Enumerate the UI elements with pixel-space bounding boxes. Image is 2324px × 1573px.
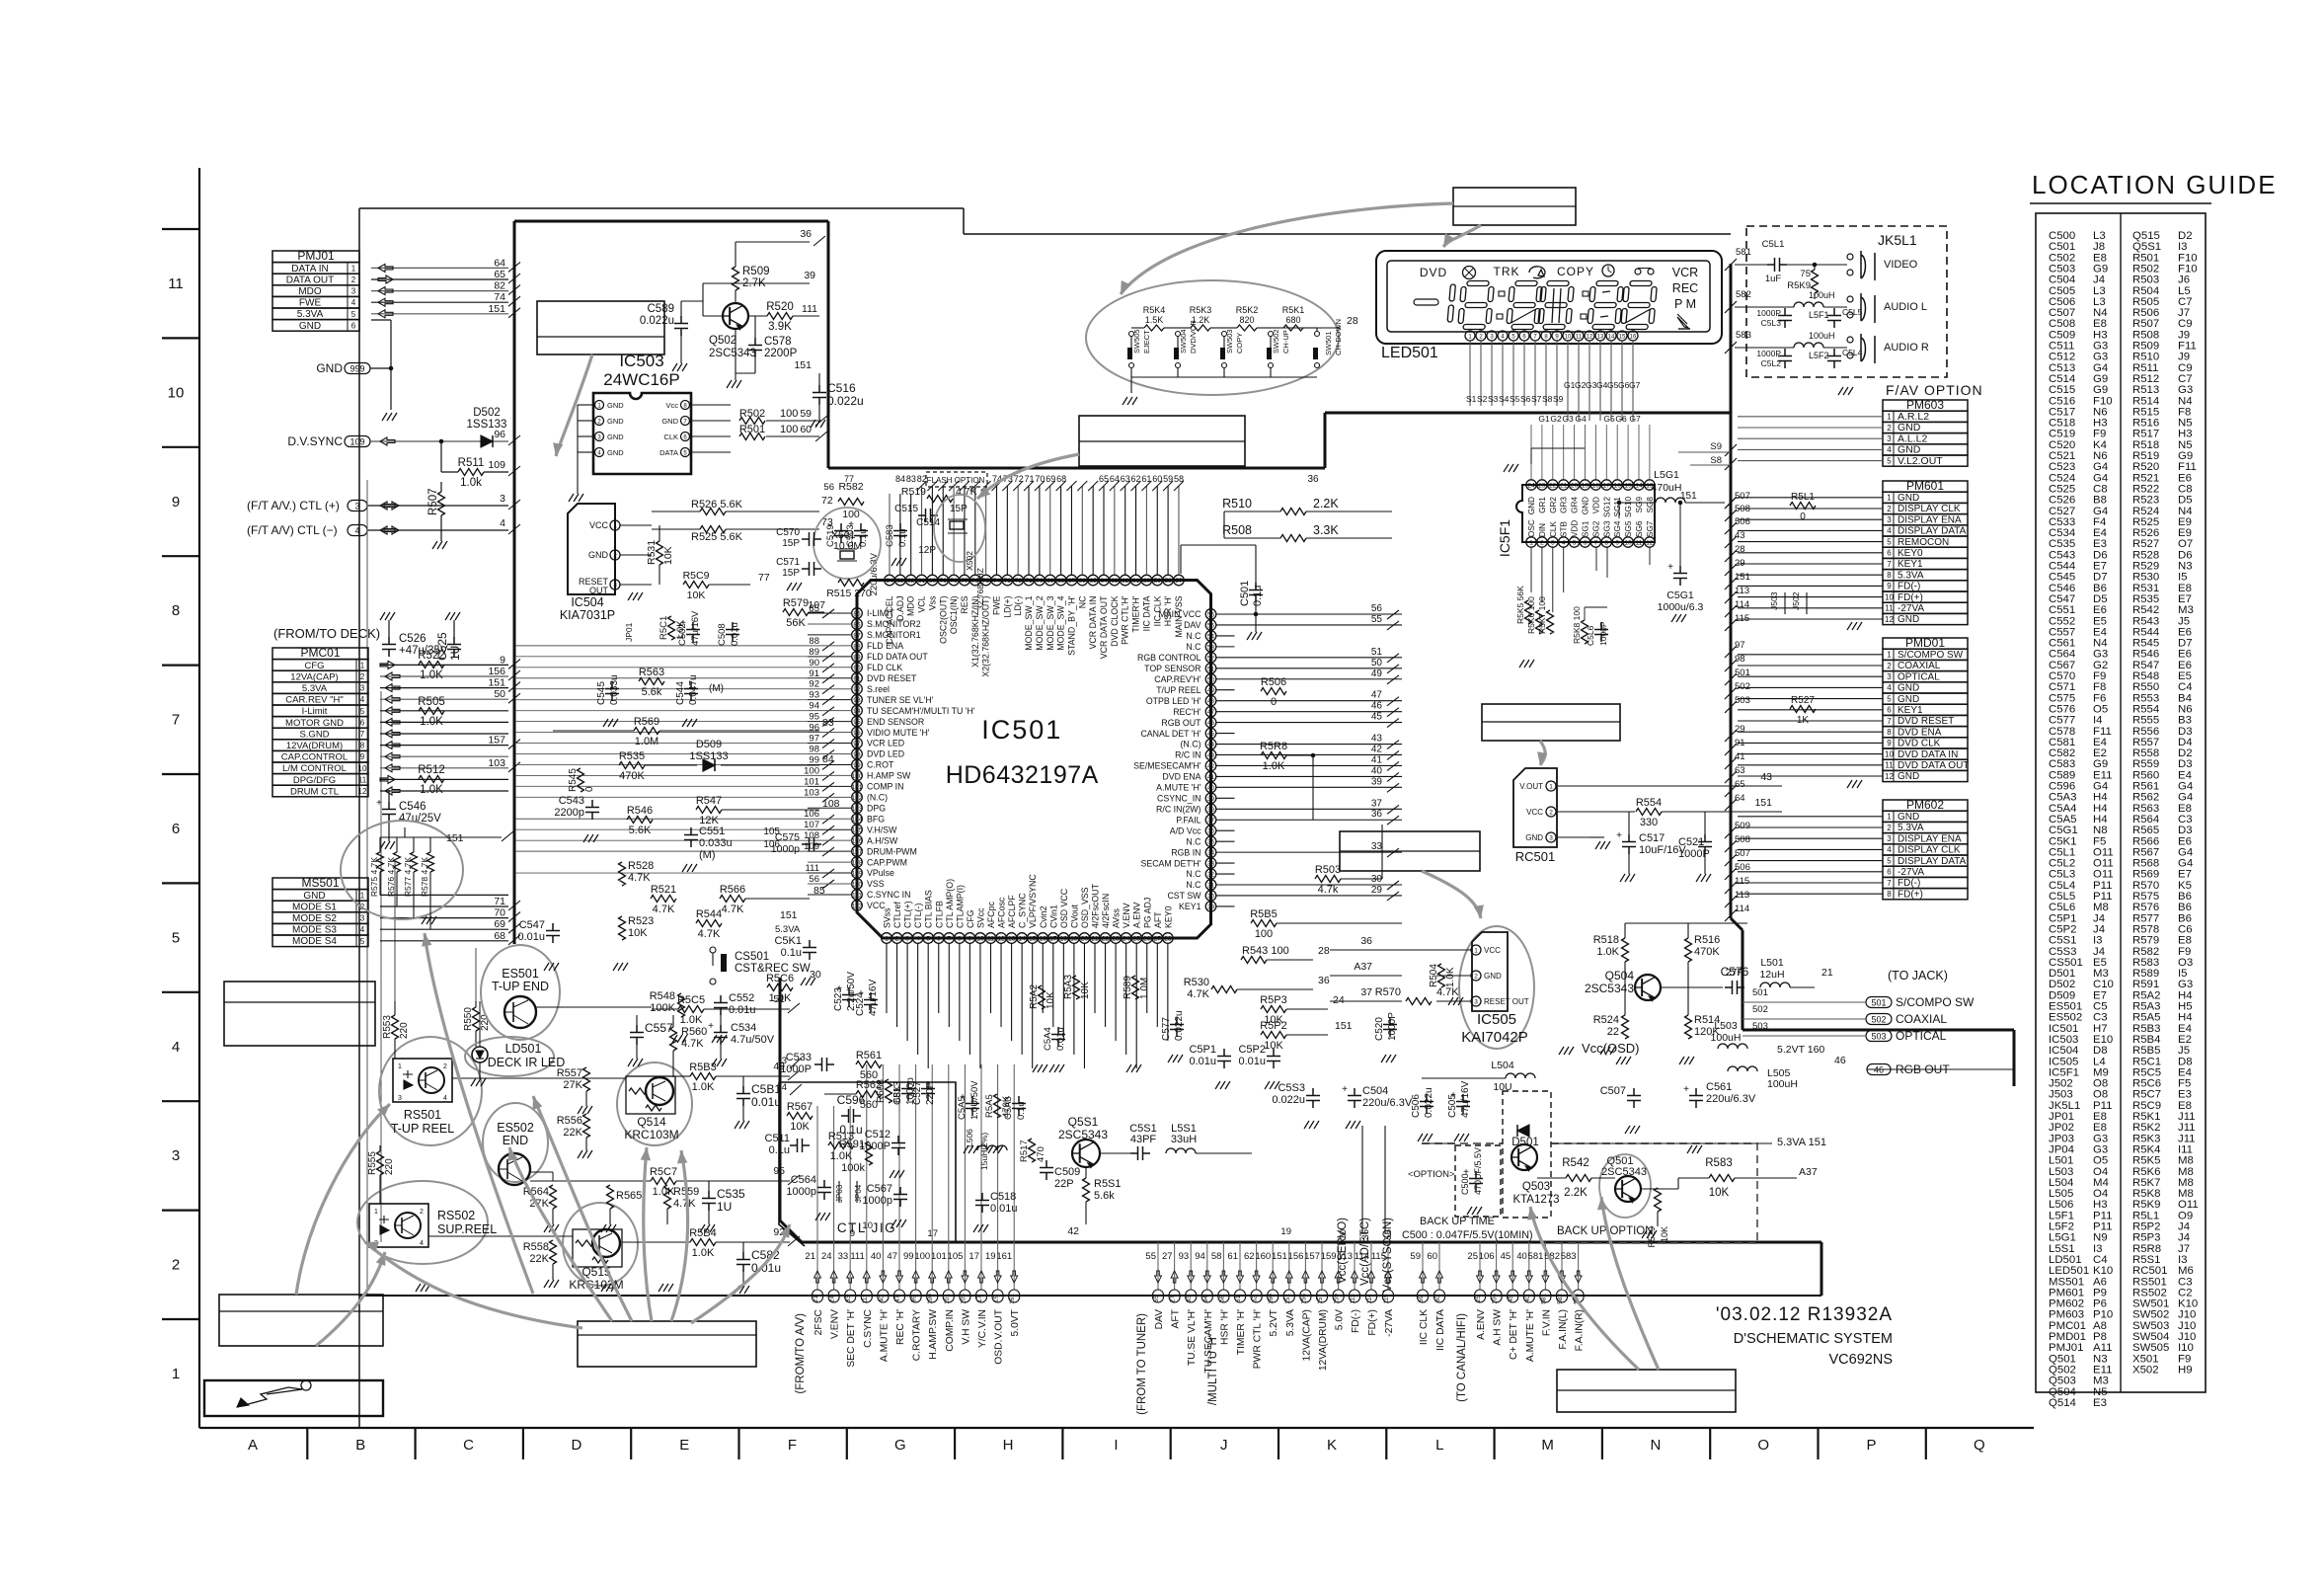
svg-text:94: 94 — [853, 708, 861, 715]
svg-text:1.5K: 1.5K — [1145, 315, 1164, 325]
svg-text:DPG: DPG — [867, 803, 886, 813]
svg-text:C533: C533 — [786, 1052, 812, 1063]
ground — [380, 841, 395, 849]
svg-text:48: 48 — [1207, 698, 1215, 705]
svg-text:10K: 10K — [1709, 1187, 1730, 1199]
svg-text:470K: 470K — [1694, 946, 1720, 958]
IC501 left pins 85-112 — [852, 608, 975, 911]
crystal X501 — [813, 508, 881, 579]
svg-text:R525 5.6K: R525 5.6K — [691, 531, 743, 543]
ground — [578, 1106, 592, 1114]
resistor R514 — [1685, 1015, 1692, 1039]
svg-text:G6: G6 — [1615, 414, 1627, 424]
svg-text:+: + — [708, 1021, 714, 1032]
resistor R562 — [856, 1079, 882, 1111]
svg-text:15: 15 — [1029, 936, 1037, 943]
svg-text:1.0K: 1.0K — [420, 784, 443, 796]
capacitor C502 — [677, 610, 701, 646]
svg-text:R5P2: R5P2 — [1260, 1020, 1287, 1032]
svg-text:11: 11 — [168, 275, 184, 292]
svg-text:ES501: ES501 — [502, 967, 539, 981]
svg-text:FD(-): FD(-) — [1351, 1309, 1361, 1333]
svg-text:6: 6 — [1584, 540, 1588, 547]
svg-text:3.3K: 3.3K — [1313, 523, 1339, 537]
svg-text:4: 4 — [1887, 445, 1892, 454]
svg-text:10: 10 — [1885, 592, 1894, 601]
svg-text:581: 581 — [1736, 247, 1751, 258]
svg-text:19: 19 — [985, 1251, 996, 1262]
svg-text:SG9: SG9 — [1635, 497, 1644, 513]
svg-text:156: 156 — [1300, 1294, 1307, 1304]
svg-text:J502: J502 — [1791, 591, 1801, 610]
svg-text:101: 101 — [852, 784, 863, 791]
svg-text:R576 4.7K: R576 4.7K — [386, 857, 396, 897]
svg-text:15P: 15P — [782, 538, 800, 549]
svg-text:C523: C523 — [833, 987, 844, 1011]
svg-text:REC 'H': REC 'H' — [895, 1309, 906, 1345]
svg-text:R542: R542 — [1562, 1157, 1589, 1169]
svg-text:SW502: SW502 — [1272, 329, 1280, 354]
wire Q502 collector — [735, 329, 736, 380]
node -27VA — [1371, 1242, 1395, 1337]
svg-text:5: 5 — [1887, 694, 1892, 703]
svg-text:C5P1: C5P1 — [1189, 1044, 1216, 1056]
label G row 2 — [1538, 414, 1641, 424]
svg-text:8: 8 — [958, 936, 962, 943]
svg-text:C561: C561 — [1706, 1081, 1732, 1093]
svg-text:22: 22 — [1549, 483, 1557, 490]
svg-text:C5K1: C5K1 — [774, 935, 802, 947]
svg-text:157: 157 — [1304, 1251, 1320, 1262]
svg-text:9: 9 — [850, 1228, 855, 1239]
svg-text:68: 68 — [494, 930, 505, 942]
IC501 right pins 56-29 — [1133, 609, 1216, 912]
svg-text:157: 157 — [1317, 1294, 1324, 1304]
svg-text:151: 151 — [780, 909, 798, 921]
svg-text:SG6: SG6 — [1635, 520, 1644, 537]
capacitor C571 — [802, 562, 821, 576]
node PWR CTL 'H' — [1244, 1242, 1264, 1369]
svg-text:98: 98 — [809, 744, 819, 754]
svg-text:111: 111 — [850, 1251, 864, 1262]
svg-text:G4: G4 — [1575, 414, 1587, 424]
svg-text:4: 4 — [916, 936, 920, 943]
schematic boundary outline (thin) — [359, 208, 1731, 1428]
svg-text:10K: 10K — [662, 546, 674, 565]
svg-text:503: 503 — [1752, 1021, 1768, 1032]
svg-text:73: 73 — [1004, 578, 1012, 585]
svg-text:C552: C552 — [729, 992, 754, 1004]
capacitor C508 — [717, 622, 740, 646]
svg-text:60: 60 — [1427, 1251, 1437, 1262]
capacitor C589 — [674, 316, 688, 336]
capacitor C500 — [1460, 1147, 1483, 1195]
svg-text:SUP.REEL: SUP.REEL — [437, 1222, 497, 1236]
svg-text:36: 36 — [1307, 474, 1319, 485]
svg-text:5: 5 — [360, 937, 365, 946]
svg-text:82: 82 — [494, 280, 505, 292]
svg-text:1.0K: 1.0K — [1263, 760, 1285, 772]
svg-text:23: 23 — [1538, 483, 1546, 490]
svg-text:5.2VT: 5.2VT — [1269, 1308, 1279, 1336]
capacitor C544 — [675, 674, 699, 705]
svg-text:FD(-): FD(-) — [1898, 878, 1920, 889]
transistor Q515 KRC103M — [563, 1203, 638, 1292]
resistor R5A3 — [1063, 975, 1091, 999]
svg-text:CH-DOWN: CH-DOWN — [1334, 319, 1343, 355]
svg-text:DVD CLK: DVD CLK — [1898, 739, 1941, 749]
svg-text:82: 82 — [917, 474, 927, 484]
ground — [988, 1145, 1003, 1153]
resistor R556 — [583, 1114, 590, 1138]
svg-text:55: 55 — [1371, 614, 1383, 625]
svg-text:42: 42 — [1207, 763, 1215, 770]
capacitor C5L1 — [1767, 258, 1787, 272]
svg-text:5: 5 — [172, 929, 180, 946]
svg-text:39: 39 — [1371, 776, 1383, 787]
svg-text:F: F — [788, 1437, 797, 1454]
capacitor C583 — [885, 523, 908, 547]
capacitor C526 — [382, 637, 396, 657]
svg-text:5: 5 — [1887, 856, 1892, 865]
svg-text:PM602: PM602 — [1906, 798, 1944, 812]
svg-text:I: I — [1114, 1437, 1118, 1454]
svg-text:2: 2 — [1887, 505, 1892, 513]
svg-text:13: 13 — [1008, 936, 1016, 943]
svg-text:C596: C596 — [837, 1093, 866, 1107]
svg-text:1uF: 1uF — [1765, 274, 1782, 284]
svg-text:5: 5 — [1887, 456, 1892, 465]
svg-text:22: 22 — [1607, 1026, 1619, 1038]
transistor Q503 — [1511, 1144, 1537, 1171]
svg-text:SG12: SG12 — [1602, 497, 1611, 517]
svg-text:OUT: OUT — [589, 586, 609, 595]
svg-text:R545: R545 — [568, 768, 579, 792]
IC IC5F1 — [1497, 425, 1655, 612]
svg-text:R519: R519 — [901, 486, 926, 498]
svg-text:VDD: VDD — [1571, 520, 1580, 537]
svg-text:R523: R523 — [628, 915, 654, 927]
svg-text:93: 93 — [1186, 1296, 1193, 1303]
svg-text:DRUM CTL: DRUM CTL — [290, 786, 339, 797]
svg-text:(N.C): (N.C) — [867, 793, 888, 803]
svg-text:1SS133: 1SS133 — [467, 419, 507, 431]
svg-text:R/C IN: R/C IN — [1175, 750, 1201, 760]
svg-text:64: 64 — [1110, 474, 1120, 484]
svg-text:C551: C551 — [699, 826, 725, 837]
svg-text:C525: C525 — [435, 632, 449, 661]
svg-text:106: 106 — [852, 838, 863, 845]
capacitor C564 — [817, 1180, 831, 1200]
svg-text:G4: G4 — [1596, 380, 1608, 390]
switch CS501 CST&REC SW — [710, 947, 811, 984]
node REC 'H' — [887, 1242, 906, 1345]
node F.V.IN — [1528, 1242, 1553, 1336]
svg-text:RGB OUT: RGB OUT — [1161, 718, 1201, 728]
ground — [1616, 1057, 1631, 1064]
svg-text:CTL AMP(O): CTL AMP(O) — [945, 879, 955, 928]
resistor R568 — [876, 1079, 903, 1103]
svg-text:104: 104 — [852, 817, 863, 824]
svg-text:Vcc(AD/ETC): Vcc(AD/ETC) — [1359, 1218, 1371, 1286]
svg-text:R589: R589 — [1123, 976, 1133, 999]
ground — [1559, 1047, 1574, 1055]
svg-text:106: 106 — [763, 839, 780, 850]
callout box A5 — [224, 982, 375, 1046]
sensor RS502 SUP.REEL — [357, 1181, 497, 1264]
svg-text:+: + — [376, 798, 382, 809]
resistor R548 — [678, 993, 685, 1017]
resistor R525 — [700, 526, 726, 533]
svg-text:C517: C517 — [1639, 832, 1665, 844]
svg-text:S3: S3 — [1488, 394, 1499, 404]
svg-text:100k: 100k — [841, 1162, 865, 1174]
resistor R519 — [927, 496, 953, 503]
PMJ01 wires — [371, 257, 520, 317]
svg-text:13: 13 — [1597, 335, 1604, 341]
svg-text:999: 999 — [349, 364, 364, 374]
svg-text:28: 28 — [1164, 936, 1172, 943]
svg-text:8: 8 — [1887, 571, 1892, 580]
svg-text:6: 6 — [1887, 549, 1892, 558]
svg-text:3: 3 — [398, 1095, 402, 1102]
svg-text:1.0K: 1.0K — [1596, 946, 1619, 958]
svg-text:37: 37 — [1360, 986, 1372, 998]
svg-text:GND: GND — [1898, 771, 1919, 782]
svg-text:A.ENV: A.ENV — [1132, 902, 1142, 928]
svg-text:9: 9 — [1887, 739, 1892, 747]
svg-text:OSD_VSS: OSD_VSS — [1080, 887, 1090, 928]
svg-text:72: 72 — [1014, 474, 1024, 484]
ground — [1679, 1057, 1694, 1064]
svg-text:4: 4 — [1887, 526, 1892, 535]
node C+ DET 'H' — [1501, 1242, 1520, 1360]
svg-text:C505: C505 — [1447, 1094, 1458, 1118]
svg-text:502: 502 — [1752, 1004, 1768, 1015]
svg-text:R560: R560 — [681, 1026, 707, 1038]
svg-text:10: 10 — [1565, 335, 1572, 341]
svg-text:21: 21 — [805, 1251, 815, 1262]
node A.MUTE 'H' — [871, 1242, 891, 1362]
svg-text:C5L6: C5L6 — [1586, 625, 1595, 646]
capacitor C5P2 — [1267, 1049, 1280, 1068]
svg-text:C5L2: C5L2 — [1761, 358, 1782, 368]
svg-text:30: 30 — [1207, 893, 1215, 900]
svg-text:VCR DATA OUT: VCR DATA OUT — [1099, 595, 1109, 659]
svg-text:17: 17 — [976, 1296, 983, 1303]
svg-text:3: 3 — [1549, 835, 1553, 842]
svg-text:3: 3 — [1887, 834, 1892, 843]
svg-text:151: 151 — [488, 677, 505, 689]
svg-text:A.ENV: A.ENV — [1476, 1309, 1487, 1340]
svg-text:2200p: 2200p — [554, 807, 584, 819]
resistor R528 — [619, 862, 626, 886]
ground — [1671, 614, 1686, 622]
svg-text:SG7: SG7 — [1646, 520, 1655, 537]
svg-text:1.0U/50V: 1.0U/50V — [969, 1080, 980, 1120]
svg-text:GND: GND — [607, 401, 624, 410]
svg-text:STB: STB — [1560, 521, 1569, 537]
svg-text:G1: G1 — [1538, 414, 1550, 424]
svg-text:R505: R505 — [418, 696, 445, 708]
svg-text:28: 28 — [1347, 315, 1358, 327]
ground — [601, 1284, 616, 1292]
svg-text:GND: GND — [1525, 833, 1543, 842]
svg-text:AUDIO R: AUDIO R — [1884, 342, 1929, 354]
svg-text:J503: J503 — [1769, 591, 1779, 610]
svg-text:S9: S9 — [1710, 441, 1722, 452]
svg-text:R5S1: R5S1 — [1094, 1178, 1122, 1190]
svg-text:15P: 15P — [950, 504, 968, 514]
svg-text:2: 2 — [1887, 662, 1892, 670]
svg-text:VCR: VCR — [1672, 266, 1698, 279]
svg-text:IC505: IC505 — [1477, 1011, 1516, 1028]
bus group B taps — [1145, 1242, 1345, 1405]
svg-text:PM603: PM603 — [1906, 398, 1944, 412]
capacitor C5G1 — [1667, 562, 1687, 586]
node A.MUTE 'H' — [1516, 1242, 1536, 1362]
svg-text:6: 6 — [1887, 868, 1892, 877]
resistor R504 — [1429, 964, 1456, 987]
svg-text:220: 220 — [384, 1158, 395, 1175]
svg-text:N: N — [1650, 1437, 1661, 1454]
svg-text:106: 106 — [1479, 1251, 1495, 1262]
svg-text:C.ROTARY: C.ROTARY — [912, 1309, 923, 1361]
svg-text:O: O — [1757, 1437, 1769, 1454]
svg-text:CSYNC_IN: CSYNC_IN — [1157, 794, 1201, 804]
svg-text:12P: 12P — [918, 545, 936, 556]
capacitor C523 — [833, 972, 857, 1011]
svg-text:RS501: RS501 — [404, 1108, 441, 1122]
svg-text:MODE S1: MODE S1 — [292, 902, 337, 912]
svg-text:10: 10 — [862, 1220, 873, 1231]
svg-text:R563: R563 — [639, 667, 664, 678]
ground — [1847, 780, 1862, 788]
capacitor C512 — [891, 1136, 905, 1155]
vertical harness wires left margin — [367, 480, 476, 1296]
svg-text:LED501: LED501 — [1381, 345, 1438, 361]
bus group E taps — [1467, 1242, 1585, 1362]
svg-text:MS501: MS501 — [301, 876, 339, 890]
svg-text:D'SCHEMATIC SYSTEM: D'SCHEMATIC SYSTEM — [1734, 1331, 1893, 1347]
svg-text:4.7K: 4.7K — [698, 928, 721, 940]
bus group C taps — [1338, 1242, 1395, 1337]
svg-text:A.MUTE 'H': A.MUTE 'H' — [879, 1309, 890, 1362]
svg-text:HD6432197A: HD6432197A — [946, 761, 1099, 789]
gray arrow to IC504 — [556, 354, 592, 456]
svg-text:50: 50 — [494, 688, 505, 700]
capacitor C534 — [708, 1021, 728, 1045]
svg-text:GND: GND — [299, 321, 321, 332]
resistor R555 — [367, 1151, 395, 1175]
capacitor C527 — [912, 1081, 936, 1105]
svg-text:COMP.IN: COMP.IN — [945, 1309, 956, 1352]
svg-text:R511: R511 — [458, 457, 485, 469]
svg-text:(F/T A/V.) CTL (+): (F/T A/V.) CTL (+) — [247, 499, 340, 512]
svg-text:C512: C512 — [865, 1129, 891, 1140]
ground — [1620, 874, 1635, 882]
wire ES502 collector — [530, 1171, 553, 1173]
capacitor C5S3 — [1306, 1088, 1320, 1108]
resistor R5L1 — [1790, 492, 1816, 522]
svg-text:24: 24 — [1123, 936, 1130, 943]
resistor R544 — [696, 908, 722, 940]
ground — [1600, 1047, 1615, 1055]
inductor L501 — [1760, 983, 1790, 987]
svg-text:R5P3: R5P3 — [1260, 994, 1287, 1006]
svg-text:D: D — [571, 1437, 581, 1454]
svg-text:4.7K: 4.7K — [722, 904, 744, 915]
gray arrows from bottom-left boxes — [296, 1104, 390, 1295]
svg-text:NC: NC — [1077, 595, 1087, 608]
svg-text:GND: GND — [303, 891, 325, 902]
svg-text:111: 111 — [802, 303, 817, 315]
svg-text:103: 103 — [852, 806, 863, 813]
svg-text:108: 108 — [804, 830, 819, 841]
svg-text:21: 21 — [1560, 483, 1568, 490]
svg-text:5.2VT 160: 5.2VT 160 — [1777, 1044, 1824, 1056]
svg-text:STAND_BY_'H': STAND_BY_'H' — [1066, 595, 1076, 656]
svg-text:582: 582 — [1736, 289, 1751, 300]
svg-text:3: 3 — [360, 914, 365, 923]
svg-text:L501: L501 — [1760, 957, 1784, 969]
svg-text:1000P: 1000P — [780, 1063, 812, 1075]
capacitor C533 — [814, 1058, 834, 1071]
ground — [801, 978, 815, 985]
svg-text:6: 6 — [1887, 706, 1892, 715]
svg-text:36: 36 — [1371, 809, 1383, 820]
svg-text:160: 160 — [1268, 1294, 1275, 1304]
svg-text:97: 97 — [853, 741, 861, 747]
resistor R542 — [1566, 1175, 1591, 1182]
inductor L5S1 — [1166, 1148, 1196, 1153]
svg-text:75: 75 — [1800, 269, 1811, 279]
svg-text:V.H SW: V.H SW — [961, 1309, 971, 1345]
svg-text:R5C6: R5C6 — [766, 973, 794, 984]
svg-text:R506: R506 — [1261, 676, 1286, 688]
LOCATION GUIDE title — [2030, 170, 2278, 203]
node H.AMP.SW — [914, 1242, 939, 1360]
svg-text:DPG/DFG: DPG/DFG — [293, 775, 336, 786]
svg-text:71: 71 — [1025, 474, 1035, 484]
svg-text:Y/C.V.IN: Y/C.V.IN — [977, 1309, 988, 1348]
display 7-segment digits — [1414, 281, 1658, 330]
resistor R591 — [866, 1141, 873, 1165]
svg-text:R518: R518 — [1593, 934, 1619, 946]
svg-text:14: 14 — [1019, 936, 1027, 943]
capacitor C596 — [837, 1093, 866, 1137]
capacitor C524 — [855, 979, 879, 1016]
ground — [1504, 464, 1518, 472]
ground — [380, 612, 395, 620]
svg-text:12: 12 — [1587, 335, 1593, 341]
svg-text:DAV: DAV — [1154, 1309, 1165, 1330]
svg-text:9: 9 — [172, 494, 180, 511]
svg-text:SW503: SW503 — [1225, 329, 1234, 354]
svg-text:V.ENV: V.ENV — [830, 1309, 841, 1339]
svg-text:SG4: SG4 — [1613, 520, 1622, 537]
svg-text:64: 64 — [1100, 578, 1108, 585]
svg-text:GND: GND — [1898, 614, 1919, 625]
svg-text:AVss: AVss — [1112, 908, 1122, 928]
svg-text:56: 56 — [823, 482, 834, 493]
svg-text:330: 330 — [1640, 817, 1658, 828]
svg-text:0.01u: 0.01u — [730, 622, 740, 646]
capacitor C5A3 — [1003, 1096, 1027, 1120]
svg-text:4: 4 — [443, 1095, 447, 1102]
node CTL(+) — [247, 493, 520, 512]
svg-text:MODE_SW_3: MODE_SW_3 — [1046, 595, 1055, 650]
